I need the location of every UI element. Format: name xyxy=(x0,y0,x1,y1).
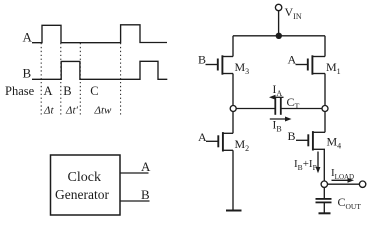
wire clock output B xyxy=(120,200,150,202)
terminal output (open circle) xyxy=(359,181,365,187)
svg-text:Δtw: Δtw xyxy=(94,105,113,117)
ground COUT xyxy=(319,212,331,214)
svg-text:A: A xyxy=(44,84,53,98)
arrow IA (left) xyxy=(269,95,284,100)
svg-text:M2: M2 xyxy=(235,137,250,153)
terminal VIN xyxy=(275,4,281,10)
transistor M3 xyxy=(206,36,234,106)
svg-text:B: B xyxy=(288,129,296,143)
node output (open circle) xyxy=(321,181,327,187)
ground M2 xyxy=(226,210,242,212)
svg-text:Generator: Generator xyxy=(55,187,109,202)
svg-text:A: A xyxy=(141,159,151,174)
svg-text:B: B xyxy=(198,53,206,67)
transistor M1 xyxy=(296,36,326,106)
svg-text:M3: M3 xyxy=(235,60,250,76)
phase boundary line 2 (dotted) xyxy=(60,43,62,116)
wire top rail xyxy=(233,35,325,37)
svg-text:Clock: Clock xyxy=(68,170,101,185)
phase boundary line 4 (dotted) xyxy=(120,43,122,116)
svg-text:C: C xyxy=(90,84,98,98)
transistor M4 xyxy=(296,112,325,181)
svg-text:M4: M4 xyxy=(327,135,342,151)
svg-text:IB+IP: IB+IP xyxy=(294,158,317,172)
svg-text:VIN: VIN xyxy=(285,5,302,21)
svg-text:ILOAD: ILOAD xyxy=(331,167,354,181)
svg-text:COUT: COUT xyxy=(338,195,362,211)
arrow IB+IP (down) xyxy=(316,152,321,174)
arrow ILOAD (right) xyxy=(332,178,355,183)
node left (open circle) xyxy=(230,106,236,112)
wire node to COUT xyxy=(323,187,325,199)
capacitor COUT xyxy=(316,199,332,203)
svg-text:A: A xyxy=(198,130,207,144)
svg-text:Δt′: Δt′ xyxy=(65,105,79,117)
wire output xyxy=(328,183,360,185)
svg-text:Phase: Phase xyxy=(5,84,35,98)
svg-text:B: B xyxy=(23,66,32,81)
svg-text:B: B xyxy=(141,187,150,202)
svg-text:M1: M1 xyxy=(326,60,341,76)
clock generator box xyxy=(51,155,121,215)
svg-text:B: B xyxy=(63,84,71,98)
phase boundary line 3 (dotted) xyxy=(79,43,81,116)
capacitor CT xyxy=(275,98,281,115)
svg-text:Δt: Δt xyxy=(43,105,54,117)
svg-text:A: A xyxy=(23,29,33,44)
wire clock output A xyxy=(120,172,149,174)
wire COUT to ground xyxy=(323,202,325,213)
phase boundary line 1 (dotted) xyxy=(40,43,42,116)
junction VIN node xyxy=(276,33,282,39)
wire signal B waveform xyxy=(32,61,167,79)
wire VIN drop xyxy=(278,11,280,36)
wire mid right xyxy=(281,108,322,110)
transistor M2 xyxy=(206,112,233,211)
svg-text:A: A xyxy=(288,53,297,67)
wire signal A waveform xyxy=(32,25,167,43)
node right (open circle) xyxy=(322,106,328,112)
arrow IB (right) xyxy=(270,117,292,122)
svg-text:IB: IB xyxy=(273,120,282,134)
wire mid left xyxy=(236,108,275,110)
